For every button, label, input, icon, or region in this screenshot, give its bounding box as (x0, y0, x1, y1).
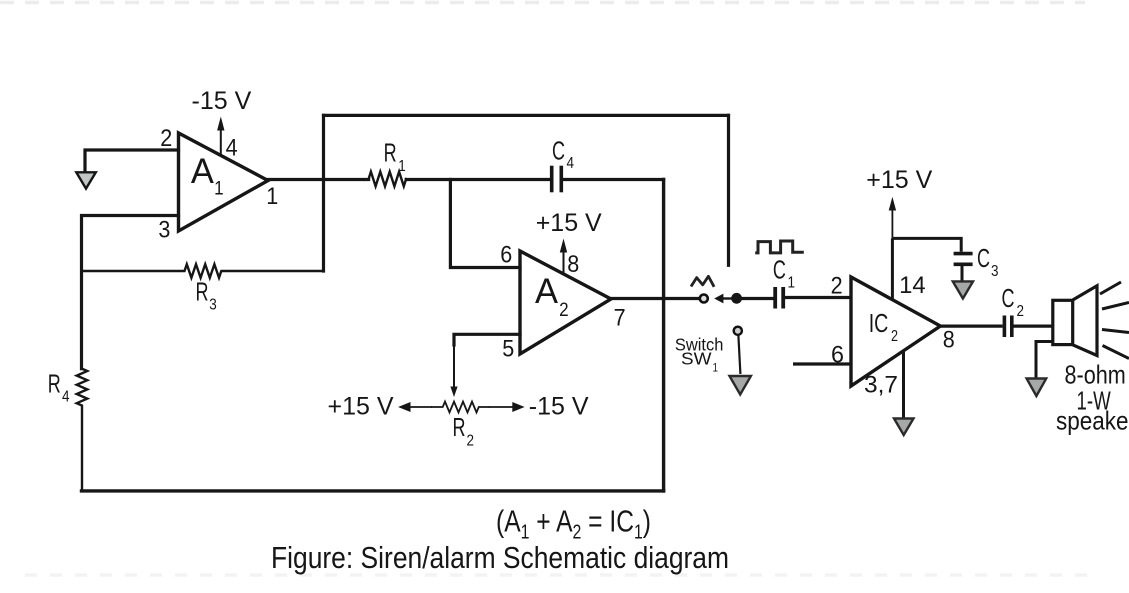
svg-text:3: 3 (991, 263, 999, 280)
switch SW1 arrow to pole (722, 297, 732, 299)
svg-text:+15 V: +15 V (866, 166, 932, 194)
wire branch pin14 to C3 (892, 238, 961, 251)
speaker sound line 2 (1102, 303, 1129, 310)
wire C1 to IC2 pin 2 (785, 296, 851, 299)
wire bottom rail (82, 489, 664, 492)
svg-text:1: 1 (266, 183, 278, 210)
svg-text:R: R (453, 414, 466, 442)
svg-text:speaker: speaker (1056, 406, 1129, 436)
svg-text:3: 3 (209, 297, 217, 314)
capacitor C3 plates (954, 252, 973, 256)
wire C4 to right vertical (563, 178, 664, 181)
wire A1 pin 2 input (85, 150, 179, 171)
svg-text:2: 2 (160, 125, 172, 152)
wire top feedback horizontal (324, 114, 729, 117)
svg-text:+15 V: +15 V (328, 393, 394, 421)
resistor R1 zigzag (369, 172, 407, 187)
svg-text:R: R (48, 370, 61, 398)
svg-text:1: 1 (713, 362, 719, 374)
wire A2 pin 5 input (454, 334, 520, 345)
svg-text:8: 8 (567, 251, 579, 278)
wire A1 output pin 1 (268, 178, 369, 181)
speaker sound line 3 (1102, 330, 1129, 333)
ground arrow below speaker (1027, 379, 1047, 397)
op-amp A2 triangle (520, 251, 611, 354)
capacitor C1 plates (773, 287, 777, 309)
switch SW1 lever knob (734, 327, 742, 335)
capacitor C4 plates (550, 168, 554, 191)
arrow +15V above IC2 (891, 210, 893, 239)
wire IC2 pin 8 output (940, 325, 1002, 328)
switch SW1 pole open circle (700, 295, 708, 303)
svg-text:SW: SW (681, 349, 712, 369)
ground arrow below IC2 (894, 419, 914, 436)
svg-text:1: 1 (788, 275, 796, 292)
svg-text:4: 4 (226, 135, 238, 162)
wire A1 pin 3 input (82, 216, 179, 369)
resistor R3 zigzag (82, 264, 324, 278)
speaker sound line 4 (1103, 346, 1129, 359)
svg-text:4: 4 (62, 389, 70, 406)
svg-text:R: R (196, 278, 209, 306)
wire vertical right of feedback down to switch (727, 115, 730, 265)
svg-text:C: C (977, 245, 990, 273)
arrow +15V above A2 (563, 251, 565, 274)
svg-text:4: 4 (567, 155, 575, 172)
svg-text:3,7: 3,7 (864, 372, 898, 399)
svg-text:2: 2 (831, 273, 843, 300)
switch SW1 lever stem (738, 336, 740, 375)
capacitor C2 plates (1003, 316, 1007, 338)
svg-text:C: C (552, 137, 565, 165)
wire switch dot to C1 (741, 297, 774, 300)
svg-text:1: 1 (214, 179, 224, 200)
svg-text:2: 2 (467, 433, 475, 450)
svg-text:A: A (191, 152, 215, 191)
svg-text:5: 5 (502, 336, 514, 363)
svg-text:Figure: Siren/alarm Schematic: Figure: Siren/alarm Schematic diagram (271, 541, 729, 575)
svg-text:6: 6 (500, 242, 512, 269)
scan artifact top dashes (0, 1, 1085, 5)
switch SW1 throw filled dot (731, 293, 742, 304)
square wave symbol (755, 241, 804, 253)
svg-text:2: 2 (891, 328, 898, 345)
svg-text:-15 V: -15 V (529, 393, 589, 421)
wire R1 to C4 (406, 178, 549, 181)
switch SW1 squiggle (691, 276, 714, 287)
ground arrow below C3 (953, 281, 973, 298)
resistor R4 zigzag vertical (77, 369, 88, 491)
potentiometer R2 zigzag (432, 402, 489, 413)
IC2 triangle (851, 277, 940, 386)
arrow R2 wiper down (450, 387, 457, 398)
wire right vertical C4 node down to bottom rail (662, 180, 665, 491)
wire junction down to A2 pin 6 (450, 180, 520, 268)
arrow -15V above A1 (220, 129, 222, 156)
svg-text:R: R (384, 140, 397, 168)
svg-text:IC: IC (869, 308, 889, 338)
wire IC2 pin 6 stub (793, 362, 851, 365)
svg-text:A: A (535, 272, 559, 311)
svg-text:2: 2 (559, 300, 569, 321)
wire A2 output pin 7 to switch (611, 297, 700, 300)
ground arrow below switch lever (730, 376, 751, 395)
svg-text:3: 3 (158, 217, 170, 244)
arrow R2 right to -15V (489, 406, 518, 408)
wire vertical left of feedback (node output A1 to R3) (322, 115, 325, 271)
svg-text:1: 1 (398, 158, 406, 175)
wire speaker to ground (1036, 342, 1053, 379)
wire R2 wiper vertical (453, 343, 455, 386)
speaker sound line 1 (1100, 282, 1121, 294)
scan artifact bottom dashes (25, 573, 1100, 577)
speaker body rect (1053, 300, 1073, 344)
svg-text:7: 7 (614, 305, 626, 332)
svg-text:-15 V: -15 V (192, 87, 252, 115)
ground arrow at A1 pin 2 (76, 172, 96, 188)
svg-text:C: C (773, 256, 786, 284)
arrow R2 left to +15V (405, 406, 432, 408)
svg-text:2: 2 (1017, 303, 1025, 320)
wire C3 to ground (961, 266, 964, 281)
svg-text:14: 14 (899, 272, 926, 299)
wire IC2 pin 14 supply (891, 238, 894, 300)
svg-text:6: 6 (831, 342, 844, 369)
wire IC2 pins 3,7 to ground (902, 352, 905, 418)
svg-text:C: C (1002, 285, 1015, 313)
op-amp A1 triangle (179, 133, 269, 231)
svg-text:+15 V: +15 V (536, 209, 602, 237)
wire C2 to speaker (1014, 325, 1053, 328)
speaker horn (1073, 286, 1097, 356)
svg-text:8: 8 (943, 327, 955, 354)
